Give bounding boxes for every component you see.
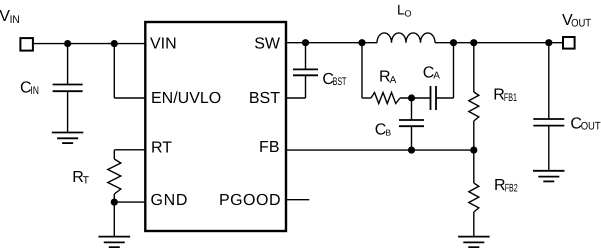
svg-text:FB2: FB2 [505,183,518,195]
svg-text:FB1: FB1 [504,92,517,104]
svg-text:EN/UVLO: EN/UVLO [151,90,221,107]
svg-text:GND: GND [151,192,189,209]
svg-text:SW: SW [254,36,281,53]
svg-text:BST: BST [249,90,280,107]
svg-text:O: O [405,8,412,18]
svg-text:IN: IN [30,85,39,97]
svg-text:B: B [385,128,391,138]
svg-text:IN: IN [10,14,20,26]
svg-text:T: T [83,175,90,187]
svg-text:BST: BST [333,76,347,88]
svg-text:A: A [433,71,440,82]
svg-text:RT: RT [151,140,172,157]
svg-text:OUT: OUT [581,121,601,133]
svg-text:A: A [390,75,397,86]
svg-text:PGOOD: PGOOD [219,192,281,209]
svg-text:VIN: VIN [150,36,177,53]
svg-text:OUT: OUT [571,17,591,29]
svg-text:FB: FB [259,139,279,156]
